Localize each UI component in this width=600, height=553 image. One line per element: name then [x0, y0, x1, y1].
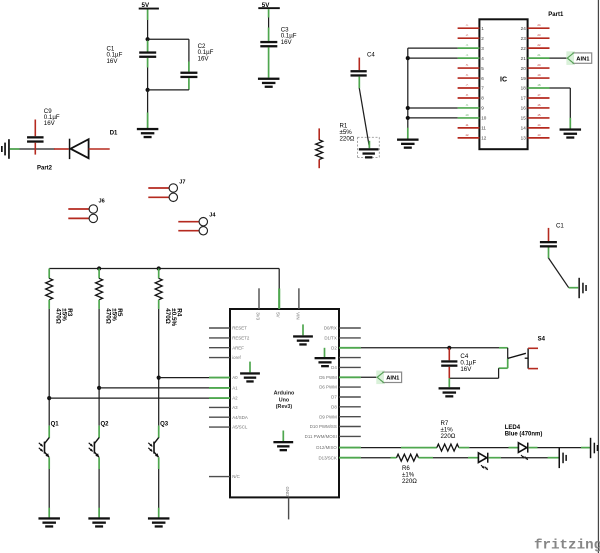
svg-text:220Ω: 220Ω — [402, 478, 417, 485]
power +5V supply 1 — [139, 8, 159, 10]
pin GND of Arduino — [288, 497, 290, 519]
pin D3 of Arduino — [339, 357, 361, 359]
wire — [268, 65, 270, 78]
svg-text:fritzing: fritzing — [534, 538, 600, 553]
connector J7 — [148, 187, 169, 189]
op-amp U1 IC Part1 body — [479, 19, 527, 149]
pin 4 of IC — [458, 57, 480, 59]
pin 7 of IC — [458, 87, 480, 89]
node junction — [406, 106, 410, 110]
wire — [147, 20, 149, 39]
svg-text:A3: A3 — [232, 405, 238, 410]
svg-text:23: 23 — [521, 36, 527, 41]
svg-text:J7: J7 — [179, 180, 185, 186]
switch S4 — [527, 348, 529, 368]
svg-text:14: 14 — [521, 126, 527, 131]
svg-text:·21·: ·21· — [537, 53, 542, 57]
ground — [559, 448, 561, 468]
svg-text:5V: 5V — [142, 2, 150, 9]
svg-text:J4: J4 — [209, 213, 216, 219]
svg-text:·6·: ·6· — [465, 73, 468, 77]
svg-text:16V: 16V — [460, 366, 472, 373]
svg-text:Q2: Q2 — [101, 421, 110, 427]
wire D12 net — [361, 447, 437, 449]
pin 3 of IC — [458, 47, 480, 49]
svg-text:220Ω: 220Ω — [441, 433, 456, 440]
capacitor C2 — [180, 72, 197, 74]
svg-text:470Ω: 470Ω — [55, 308, 62, 324]
svg-text:Part2: Part2 — [37, 166, 53, 172]
pin D0/RX of Arduino — [339, 327, 361, 329]
ground — [282, 431, 284, 442]
svg-text:D13/SCK: D13/SCK — [318, 455, 336, 460]
svg-text:·1·: ·1· — [465, 23, 468, 27]
ground — [8, 139, 10, 159]
ground — [249, 362, 251, 373]
svg-text:22: 22 — [521, 46, 527, 51]
svg-text:8: 8 — [481, 96, 484, 101]
svg-text:VIN: VIN — [296, 312, 301, 319]
diode D1 — [54, 148, 69, 150]
wire — [268, 18, 270, 28]
pin D1/TX of Arduino — [339, 337, 361, 339]
resistor R6 — [397, 454, 419, 461]
wire — [158, 309, 160, 426]
pin A4/SDA of Arduino — [209, 416, 230, 418]
svg-text:D0/RX: D0/RX — [324, 326, 337, 331]
svg-text:·15·: ·15· — [537, 113, 542, 117]
svg-text:·18·: ·18· — [537, 83, 542, 87]
wire — [407, 48, 409, 138]
wire — [98, 469, 100, 517]
ground — [148, 517, 170, 519]
svg-text:5V: 5V — [262, 2, 270, 9]
svg-text:C1: C1 — [556, 222, 564, 229]
svg-text:A5/SCL: A5/SCL — [232, 425, 248, 430]
svg-text:·22·: ·22· — [537, 43, 542, 47]
capacitor C1 — [139, 51, 156, 53]
node junction — [97, 266, 101, 270]
ground selected — [358, 136, 380, 138]
svg-text:A0: A0 — [232, 375, 238, 380]
wire A2 — [49, 397, 209, 399]
pin RESET2 of Arduino — [209, 337, 230, 339]
svg-text:AIN1: AIN1 — [576, 56, 590, 62]
ground — [590, 438, 592, 458]
node junction — [47, 396, 51, 400]
connector J4 — [178, 221, 199, 223]
pin 17 of IC — [528, 97, 550, 99]
pin 16 of IC — [528, 107, 550, 109]
node AIN1 flag — [566, 51, 575, 65]
svg-text:16V: 16V — [44, 120, 56, 127]
svg-text:N/C: N/C — [232, 474, 240, 479]
svg-text:D6 PWM: D6 PWM — [319, 385, 337, 390]
svg-text:D1/TX: D1/TX — [324, 336, 337, 341]
svg-text:·8·: ·8· — [465, 93, 468, 97]
svg-text:21: 21 — [521, 56, 527, 61]
wire — [359, 88, 369, 147]
pin 3V3 of Arduino — [258, 288, 260, 309]
pin D13/SCK of Arduino — [339, 457, 361, 459]
svg-text:470Ω: 470Ω — [105, 308, 112, 324]
pin A1 of Arduino — [209, 387, 230, 389]
svg-text:10: 10 — [481, 116, 487, 121]
wire — [188, 88, 190, 91]
node AIN1 flag 2 — [376, 371, 385, 385]
svg-text:·16·: ·16· — [537, 103, 542, 107]
pin 13 of IC — [528, 137, 550, 139]
wire — [158, 469, 160, 517]
svg-text:9: 9 — [481, 106, 484, 111]
svg-text:12: 12 — [481, 136, 487, 141]
wire — [48, 469, 50, 517]
LED LED4 — [518, 443, 526, 453]
wire — [148, 38, 189, 40]
wire A1 — [99, 387, 209, 389]
wire A0 — [159, 377, 209, 379]
pin RESET of Arduino — [209, 327, 230, 329]
pin 22 of IC — [528, 47, 550, 49]
LED LED3 — [478, 453, 486, 463]
svg-text:3V3: 3V3 — [256, 312, 261, 320]
pin 11 of IC — [458, 127, 480, 129]
wire — [469, 447, 518, 449]
svg-text:AREF: AREF — [232, 345, 244, 350]
pin 5V of Arduino — [278, 289, 280, 310]
resistor R4 — [158, 269, 160, 279]
wire — [147, 90, 149, 128]
capacitor C9 Part2 — [34, 120, 36, 137]
svg-text:Arduino: Arduino — [274, 391, 295, 397]
pin ioref of Arduino — [209, 357, 230, 359]
svg-text:·2·: ·2· — [465, 33, 468, 37]
node junction — [157, 376, 161, 380]
svg-text:RESET2: RESET2 — [232, 336, 250, 341]
wire — [10, 148, 55, 150]
svg-text:2: 2 — [481, 36, 484, 41]
ground — [88, 517, 110, 519]
wire — [147, 39, 149, 51]
resistor R7 — [437, 444, 459, 451]
svg-text:·12·: ·12· — [465, 133, 470, 137]
svg-text:A1: A1 — [232, 386, 238, 391]
pin 20 of IC — [528, 67, 550, 69]
resistor R1 — [318, 128, 320, 140]
pin 5 of IC — [458, 67, 480, 69]
svg-text:D8: D8 — [331, 404, 337, 409]
wire — [507, 348, 509, 359]
svg-text:·3·: ·3· — [465, 43, 468, 47]
node junction — [146, 37, 150, 41]
svg-text:·20·: ·20· — [537, 63, 542, 67]
ground — [302, 324, 304, 335]
pin 8 of IC — [458, 97, 480, 99]
capacitor C4 bottom — [448, 348, 450, 361]
node junction — [406, 56, 410, 60]
svg-text:AIN1: AIN1 — [386, 376, 400, 382]
wire D13 net — [361, 457, 397, 459]
svg-text:D7: D7 — [331, 395, 337, 400]
svg-text:·24·: ·24· — [537, 23, 542, 27]
svg-text:470Ω: 470Ω — [164, 308, 171, 324]
wire — [98, 309, 100, 426]
svg-text:S4: S4 — [538, 337, 546, 343]
svg-text:17: 17 — [521, 96, 527, 101]
svg-text:16: 16 — [521, 106, 527, 111]
wire — [147, 68, 149, 90]
node junction — [406, 116, 410, 120]
pin A5/SCL of Arduino — [209, 426, 230, 428]
ground — [38, 517, 60, 519]
pin D6 PWM of Arduino — [339, 386, 361, 388]
svg-text:11: 11 — [481, 126, 486, 131]
switch S4 lever — [508, 353, 526, 358]
pin D11 PWM/MOSI of Arduino — [339, 435, 361, 437]
wire — [408, 107, 458, 109]
svg-text:5: 5 — [481, 66, 484, 71]
ground — [324, 348, 326, 357]
pin 1 of IC — [458, 27, 480, 29]
svg-text:C4: C4 — [367, 51, 375, 58]
svg-text:16V: 16V — [107, 58, 119, 65]
ground — [560, 128, 582, 130]
svg-text:GND: GND — [285, 487, 290, 497]
svg-text:1: 1 — [481, 26, 484, 31]
svg-text:·7·: ·7· — [465, 83, 468, 87]
svg-text:D2: D2 — [331, 345, 337, 350]
resistor R3 — [48, 269, 50, 279]
pin D12/MISO of Arduino — [339, 447, 361, 449]
svg-text:·10·: ·10· — [465, 113, 470, 117]
pin VIN of Arduino — [298, 288, 300, 309]
svg-text:·9·: ·9· — [465, 103, 468, 107]
connector J6 — [68, 208, 89, 210]
wire — [549, 258, 569, 288]
svg-text:A2: A2 — [232, 396, 238, 401]
node junction — [157, 266, 161, 270]
svg-text:IC: IC — [500, 77, 507, 84]
op-amp U2 Arduino Uno body — [230, 309, 339, 497]
svg-text:A4/SDA: A4/SDA — [232, 415, 248, 420]
svg-text:D4: D4 — [331, 365, 337, 370]
wire — [499, 367, 508, 369]
pin 24 of IC — [528, 27, 550, 29]
wire — [501, 457, 559, 459]
svg-text:·11·: ·11· — [465, 123, 470, 127]
pin D4 of Arduino — [339, 366, 361, 368]
svg-text:LED4: LED4 — [505, 425, 521, 431]
svg-text:5V: 5V — [276, 312, 281, 317]
svg-text:19: 19 — [521, 76, 527, 81]
pin 10 of IC — [458, 117, 480, 119]
ground — [397, 139, 419, 141]
pin D2 of Arduino — [339, 347, 361, 349]
resistor R5 — [98, 269, 100, 279]
svg-text:(Rev3): (Rev3) — [276, 404, 293, 410]
svg-text:·4·: ·4· — [465, 53, 468, 57]
svg-text:3: 3 — [481, 46, 484, 51]
pin D10 PWM/SS of Arduino — [339, 426, 361, 428]
pin 23 of IC — [528, 37, 550, 39]
svg-text:D12/MISO: D12/MISO — [316, 445, 337, 450]
pin D8 of Arduino — [339, 406, 361, 408]
svg-text:Uno: Uno — [279, 397, 290, 403]
wire — [48, 309, 50, 426]
pin 21 of IC — [528, 57, 550, 59]
pin AREF of Arduino — [209, 347, 230, 349]
pin A3 of Arduino — [209, 406, 230, 408]
svg-text:Blue (470nm): Blue (470nm) — [505, 432, 543, 438]
svg-text:220Ω: 220Ω — [340, 136, 355, 143]
svg-text:·23·: ·23· — [537, 33, 542, 37]
pin 19 of IC — [528, 77, 550, 79]
pin 15 of IC — [528, 117, 550, 119]
svg-text:·17·: ·17· — [537, 93, 542, 97]
power +5V supply 2 — [258, 7, 280, 9]
svg-text:Q1: Q1 — [51, 421, 60, 427]
svg-text:16V: 16V — [198, 55, 210, 62]
svg-text:6: 6 — [481, 76, 484, 81]
node junction — [97, 386, 101, 390]
svg-text:15: 15 — [521, 116, 527, 121]
svg-text:4: 4 — [481, 56, 484, 61]
pin 9 of IC — [458, 107, 480, 109]
wire — [550, 57, 568, 59]
wire — [433, 457, 478, 459]
svg-text:7: 7 — [481, 86, 484, 91]
capacitor C3 — [260, 41, 277, 43]
pin 18 of IC — [528, 87, 550, 89]
pin D9 PWM of Arduino — [339, 416, 361, 418]
svg-text:20: 20 — [521, 66, 527, 71]
wire — [408, 117, 458, 119]
svg-text:D11 PWM/MOSI: D11 PWM/MOSI — [305, 434, 337, 439]
wire D5 net — [361, 376, 377, 378]
ground — [578, 278, 580, 298]
svg-text:D10 PWM/SS: D10 PWM/SS — [310, 424, 337, 429]
svg-text:D1: D1 — [110, 131, 118, 137]
svg-text:Q3: Q3 — [160, 421, 169, 427]
wire — [408, 47, 458, 49]
ground — [258, 78, 280, 80]
wire D2 net — [361, 347, 499, 349]
pin 12 of IC — [458, 137, 480, 139]
svg-text:24: 24 — [521, 26, 527, 31]
ground — [439, 387, 461, 389]
svg-text:·13·: ·13· — [537, 133, 542, 137]
pin A2 of Arduino — [209, 397, 230, 399]
svg-text:D5 PWM: D5 PWM — [319, 375, 337, 380]
svg-text:16V: 16V — [281, 39, 293, 46]
svg-text:13: 13 — [521, 136, 527, 141]
wire 5V rail — [49, 268, 279, 270]
svg-text:18: 18 — [521, 86, 527, 91]
pin A0 of Arduino — [209, 377, 230, 379]
svg-text:·14·: ·14· — [537, 123, 542, 127]
svg-text:J6: J6 — [99, 199, 105, 205]
svg-text:·19·: ·19· — [537, 73, 542, 77]
svg-text:·5·: ·5· — [465, 63, 468, 67]
pin N/C of Arduino — [209, 476, 230, 478]
wire — [538, 447, 590, 449]
ground — [137, 128, 159, 130]
pin D5 PWM of Arduino — [339, 376, 361, 378]
svg-text:RESET: RESET — [232, 326, 247, 331]
pin 6 of IC — [458, 77, 480, 79]
pin 14 of IC — [528, 127, 550, 129]
pin D7 of Arduino — [339, 396, 361, 398]
wire — [550, 87, 571, 89]
svg-text:D9 PWM: D9 PWM — [319, 414, 337, 419]
pin 2 of IC — [458, 37, 480, 39]
svg-text:ioref: ioref — [232, 355, 241, 360]
wire — [408, 57, 458, 59]
node junction — [447, 346, 451, 350]
svg-text:Part1: Part1 — [548, 12, 564, 18]
node junction — [146, 88, 150, 92]
